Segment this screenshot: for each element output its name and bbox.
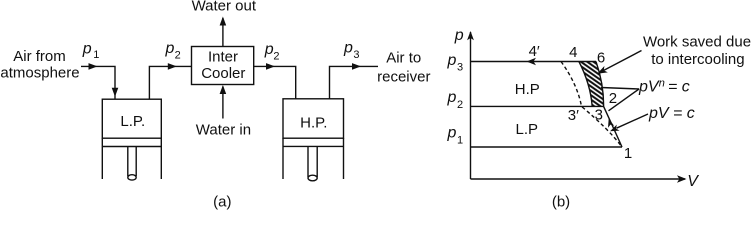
- callout line: work saved: [603, 51, 642, 71]
- svg-text:L.P.: L.P.: [120, 113, 145, 130]
- L.P. cylinder left wall extension: [101, 138, 103, 179]
- svg-text:to intercooling: to intercooling: [651, 51, 744, 68]
- svg-text:p: p: [82, 40, 92, 57]
- V axis: [471, 178, 686, 180]
- svg-text:2: 2: [175, 50, 181, 62]
- label p2 on axis: [447, 89, 464, 111]
- label p3 (delivery pressure): [343, 39, 360, 61]
- svg-text:L.P: L.P: [516, 121, 539, 138]
- arrowhead right on intercooler outlet: [266, 63, 275, 70]
- svg-text:1: 1: [624, 145, 632, 162]
- svg-text:pV: pV: [638, 78, 660, 95]
- svg-text:3′: 3′: [568, 107, 579, 124]
- L.P. piston line: [102, 146, 161, 148]
- svg-text:6: 6: [597, 50, 605, 67]
- solid polytropic curve 1-2-6: [596, 62, 622, 148]
- svg-text:3: 3: [353, 49, 359, 61]
- svg-text:Inter: Inter: [208, 48, 238, 65]
- label p1 on axis: [447, 125, 464, 147]
- wire: water out pipe: [222, 18, 224, 47]
- label: Air from atmosphere: [0, 48, 79, 81]
- svg-text:Work saved due: Work saved due: [643, 33, 751, 50]
- wire: H.P. outlet pipe to receiver: [330, 66, 379, 98]
- svg-text:2: 2: [457, 99, 463, 111]
- dashed isothermal curve pV=c (1 - 3' - 4'): [561, 62, 622, 148]
- L.P. piston rod: [127, 147, 129, 177]
- wire: intercooler outlet pipe to H.P. cylinder: [254, 66, 296, 98]
- svg-text:p: p: [264, 41, 274, 58]
- region labels H.P / L.P: [515, 81, 540, 138]
- wire: water in pipe: [222, 87, 224, 119]
- p2 pressure line: [471, 105, 604, 107]
- svg-text:p: p: [165, 40, 175, 57]
- svg-text:Air to: Air to: [386, 50, 421, 67]
- label: Work saved due to intercooling: [643, 33, 751, 68]
- svg-text:4′: 4′: [529, 43, 540, 60]
- direction arrowhead on curve 1-2: [608, 119, 614, 128]
- label: Air to receiver: [377, 50, 430, 86]
- H.P. cylinder right wall extension: [343, 138, 345, 179]
- svg-text:Cooler: Cooler: [201, 65, 245, 82]
- svg-text:Water out: Water out: [192, 0, 257, 15]
- svg-text:p: p: [343, 39, 353, 56]
- arrowhead right on H.P. outlet: [352, 63, 361, 70]
- svg-text:(b): (b): [552, 194, 570, 211]
- arrowhead right on L.P. outlet: [168, 63, 177, 70]
- label p3 on axis: [447, 52, 464, 74]
- label p1 (inlet pressure): [82, 40, 100, 61]
- svg-text:H.P.: H.P.: [300, 115, 327, 132]
- svg-text:atmosphere: atmosphere: [0, 65, 79, 82]
- svg-text:4: 4: [569, 44, 577, 61]
- p1 pressure line: [471, 146, 623, 148]
- svg-text:2: 2: [609, 90, 617, 107]
- label p2 (intercooler outlet pressure): [264, 41, 280, 63]
- point labels 3' 3 2 1: [568, 90, 632, 162]
- label pV^n = c with fork lines: [638, 77, 690, 95]
- svg-text:(a): (a): [213, 194, 231, 211]
- svg-text:1: 1: [457, 135, 463, 147]
- L.P. cylinder right wall extension: [160, 138, 162, 179]
- svg-text:3: 3: [595, 106, 603, 123]
- fork line upper to curve 2-6: [601, 88, 639, 90]
- svg-text:n: n: [659, 77, 665, 89]
- arrowhead up water in: [220, 85, 227, 94]
- svg-text:p: p: [447, 125, 457, 142]
- arrowhead down into L.P. cylinder: [112, 88, 119, 97]
- H.P. piston rod: [307, 146, 309, 177]
- svg-text:Water in: Water in: [196, 121, 251, 138]
- point labels 4' 4 6: [529, 43, 606, 67]
- svg-text:1: 1: [93, 49, 99, 61]
- fork line lower to curve 1-2: [609, 89, 640, 111]
- svg-text:= c: = c: [668, 78, 690, 95]
- component: H.P. cylinder body: [283, 99, 344, 138]
- solid polytropic curve 3-4: [579, 62, 592, 107]
- component: L.P. cylinder body: [102, 99, 161, 138]
- svg-text:p: p: [447, 52, 457, 69]
- H.P. cylinder left wall extension: [282, 138, 284, 179]
- svg-text:p: p: [454, 27, 464, 44]
- arrowhead left on p3 line: [527, 58, 537, 66]
- svg-text:2: 2: [273, 51, 279, 63]
- svg-text:receiver: receiver: [377, 69, 430, 86]
- H.P. piston line: [283, 145, 344, 147]
- label pV = c with callout arrow: [648, 105, 695, 122]
- wire: inlet pipe from atmosphere to L.P. cylinder: [81, 66, 115, 99]
- callout line pV=c to dashed curve: [617, 114, 649, 128]
- svg-text:V: V: [687, 173, 699, 190]
- svg-text:3: 3: [457, 62, 463, 74]
- svg-text:p: p: [447, 89, 457, 106]
- wire: L.P. outlet pipe to intercooler: [149, 66, 191, 99]
- label p2 (L.P. outlet pressure): [165, 40, 181, 61]
- component: intercooler box: [192, 47, 254, 85]
- hatched region: work saved due to intercooling (4-6-2-3): [579, 62, 604, 107]
- p3 pressure line: [471, 61, 597, 63]
- p axis: [470, 32, 472, 179]
- arrowhead up water out: [220, 17, 227, 26]
- svg-text:pV = c: pV = c: [648, 105, 695, 122]
- svg-text:H.P: H.P: [515, 81, 540, 98]
- svg-text:Air from: Air from: [13, 48, 66, 65]
- arrowhead right on inlet pipe: [89, 63, 98, 70]
